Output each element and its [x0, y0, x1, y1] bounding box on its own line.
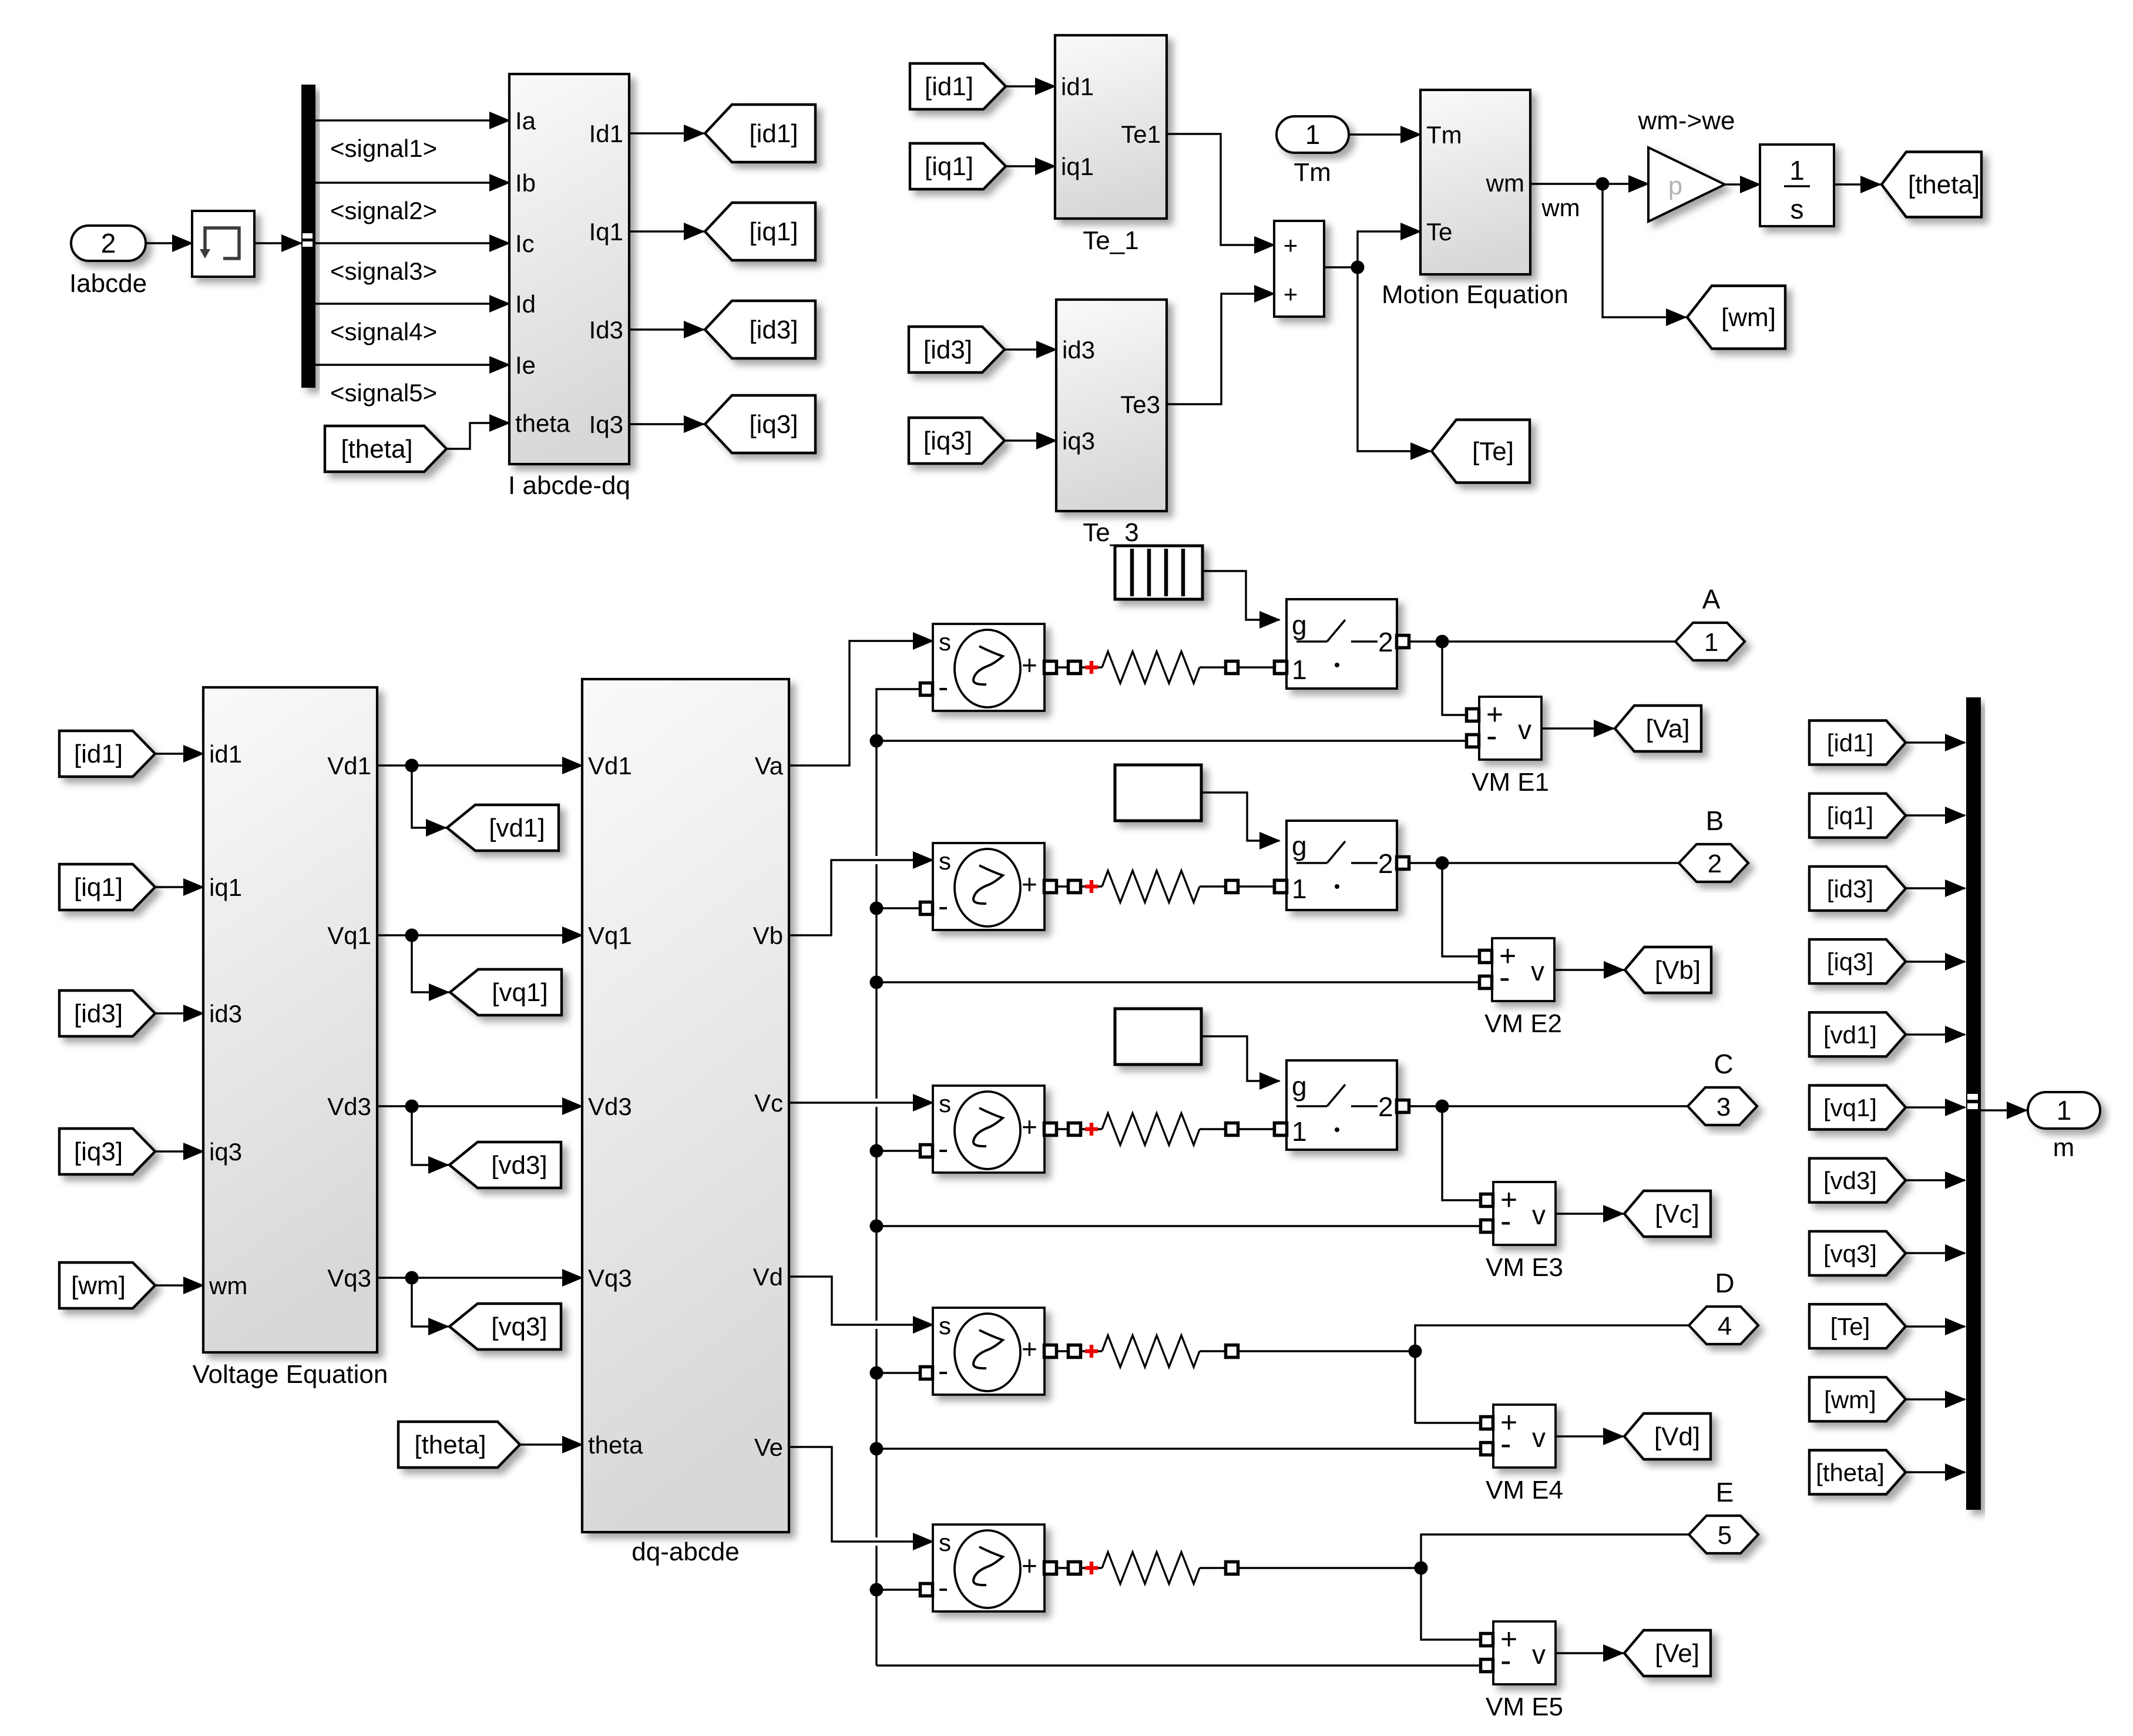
junction B — [1436, 857, 1449, 870]
svg-text:+: + — [1284, 231, 1298, 259]
svg-text:s: s — [939, 628, 951, 656]
port - of VM E5 — [1481, 1660, 1493, 1672]
from tag [iq3] to mux — [1809, 939, 1906, 983]
svg-text:[vq3]: [vq3] — [491, 1312, 547, 1341]
wire bus to VM - row 2087 — [876, 1225, 1480, 1227]
wire branch to [vq1] — [412, 935, 449, 992]
junction [vd3] — [405, 1100, 419, 1113]
svg-text:[theta]: [theta] — [1908, 170, 1980, 199]
svg-text:VM E5: VM E5 — [1486, 1693, 1563, 1721]
svg-text:-: - — [1499, 958, 1510, 995]
wire to port A — [1442, 640, 1675, 642]
svg-text:[iq1]: [iq1] — [1827, 802, 1873, 830]
svg-text:iq3: iq3 — [209, 1138, 242, 1166]
label E — [1716, 1477, 1734, 1507]
svg-text:Vq3: Vq3 — [327, 1264, 371, 1292]
wire B to VM E2 + — [1442, 863, 1479, 956]
voltage measurement VM E1 — [1479, 697, 1541, 760]
wire negative bus segment 4 — [875, 1329, 877, 1537]
junction bus — [870, 734, 884, 748]
svg-text:Va: Va — [755, 752, 784, 780]
svg-text:id3: id3 — [209, 1000, 242, 1028]
goto tag [iq1] — [705, 203, 815, 260]
svg-text:Voltage Equation: Voltage Equation — [193, 1360, 388, 1389]
svg-text:[vd1]: [vd1] — [1823, 1021, 1877, 1049]
junction [vq3] — [405, 1271, 419, 1285]
wire + of source to node 5 — [1057, 1567, 1069, 1569]
wire switch A out — [1410, 640, 1442, 642]
svg-text:[id1]: [id1] — [925, 72, 973, 101]
port node 3b — [1226, 1123, 1238, 1136]
svg-text:s: s — [1791, 194, 1804, 224]
subsystem Motion Equation — [1420, 90, 1530, 274]
svg-text:[iq1]: [iq1] — [925, 152, 973, 181]
port - of VM E3 — [1481, 1220, 1493, 1233]
wire id3 to Te_3 — [1005, 348, 1056, 350]
wire wm to Voltage Equation — [155, 1284, 203, 1286]
svg-text:g: g — [1292, 831, 1307, 861]
svg-text:wm->we: wm->we — [1637, 106, 1735, 135]
svg-text:E: E — [1716, 1477, 1734, 1507]
svg-text:2: 2 — [1378, 1092, 1393, 1122]
wire node to resistor 1 — [1080, 666, 1102, 668]
wire gain to integrator — [1725, 183, 1760, 185]
svg-text:[iq1]: [iq1] — [749, 217, 798, 246]
wire signal2 — [315, 182, 509, 183]
goto tag [theta] — [1882, 152, 1981, 217]
step block B — [1115, 765, 1201, 821]
from tag [vq3] to mux — [1809, 1231, 1906, 1275]
svg-text:1: 1 — [1305, 119, 1321, 150]
wire to port B — [1442, 862, 1679, 864]
port node 3a — [1069, 1123, 1081, 1136]
svg-text:1: 1 — [1292, 874, 1307, 904]
port 2 of B — [1397, 857, 1409, 869]
port node 4a — [1069, 1345, 1081, 1358]
goto tag [Ve] — [1624, 1630, 1711, 1676]
svg-text:id1: id1 — [209, 740, 242, 768]
wire E to VM E5 + — [1421, 1568, 1480, 1640]
svg-text:VM E2: VM E2 — [1484, 1009, 1562, 1038]
wire integrator to theta tag — [1834, 183, 1880, 185]
pulse generator — [1115, 546, 1202, 599]
goto tag [Va] — [1615, 706, 1701, 751]
goto tag [Vb] — [1625, 947, 1711, 993]
wire signal4 — [315, 303, 509, 304]
svg-text:-: - — [938, 670, 948, 704]
wire bus to source - row 1959 — [876, 1150, 921, 1151]
svg-text:Iq3: Iq3 — [589, 411, 623, 438]
port + of VM E3 — [1481, 1194, 1493, 1207]
polarity mark + — [1085, 1123, 1098, 1136]
goto tag [iq3] — [705, 395, 815, 453]
from tag [vd1] to mux — [1809, 1012, 1906, 1056]
junction bus — [870, 1220, 884, 1233]
wire A to VM E1 + — [1442, 642, 1466, 715]
svg-text:[iq1]: [iq1] — [74, 873, 123, 902]
from tag [id3] to mux — [1809, 867, 1906, 911]
from tag [theta] to dq-abcde — [398, 1422, 520, 1468]
svg-text:Ie: Ie — [515, 351, 536, 379]
svg-text:[vd1]: [vd1] — [489, 814, 545, 842]
svg-text:iq1: iq1 — [1061, 153, 1094, 180]
wire resistor 2 out — [1200, 885, 1226, 887]
svg-text:[wm]: [wm] — [1721, 303, 1776, 332]
label B — [1706, 805, 1724, 836]
junction [vq1] — [405, 929, 419, 942]
svg-text:m: m — [2053, 1133, 2075, 1162]
svg-text:[vq1]: [vq1] — [1823, 1094, 1877, 1121]
junction bus — [870, 902, 884, 915]
port - of E2 — [921, 902, 933, 915]
wire Tm to Motion Equation — [1349, 133, 1420, 135]
polarity mark + — [1085, 661, 1098, 674]
wire Id output [id1] — [629, 132, 704, 134]
wire VM E5 to [Ve] — [1556, 1652, 1623, 1654]
wire Te to goto tag — [1358, 267, 1430, 451]
polarity mark + — [1085, 1562, 1098, 1574]
svg-text:Vd1: Vd1 — [588, 752, 632, 780]
subsystem Te_3 — [1056, 300, 1167, 511]
svg-text:VM E1: VM E1 — [1472, 768, 1549, 797]
breaker switch C — [1286, 1060, 1397, 1150]
connection port 3 phase C — [1688, 1087, 1757, 1125]
svg-text:VM E4: VM E4 — [1486, 1476, 1563, 1505]
svg-text:[Te]: [Te] — [1830, 1313, 1870, 1341]
port - of VM E1 — [1467, 735, 1479, 747]
from tag [iq3] to Voltage Equation — [59, 1129, 155, 1174]
wire iq3 to Voltage Equation — [155, 1150, 203, 1152]
svg-text:5: 5 — [1718, 1521, 1732, 1550]
junction wm — [1596, 177, 1610, 191]
svg-text:[vd3]: [vd3] — [1823, 1167, 1877, 1194]
label VM E1 — [1472, 768, 1549, 797]
wire V output row 1303 — [377, 764, 582, 766]
svg-text:Id1: Id1 — [589, 120, 623, 147]
wire bus to VM - row 1672 — [876, 981, 1479, 983]
wire sum output — [1324, 266, 1358, 268]
wire bus to source - row 2706 — [876, 1589, 921, 1590]
svg-text:Vq3: Vq3 — [588, 1264, 632, 1292]
svg-text:<signal1>: <signal1> — [330, 135, 437, 162]
wire + of source to node 4 — [1057, 1350, 1069, 1352]
wire [theta] to mux — [1906, 1471, 1965, 1473]
wire to port D — [1415, 1325, 1689, 1351]
wire negative bus bottom — [875, 1546, 877, 1666]
wire [id3] to mux — [1906, 887, 1965, 889]
breaker switch A — [1286, 599, 1397, 689]
svg-text:[Vb]: [Vb] — [1655, 956, 1701, 985]
wire to port C — [1442, 1105, 1688, 1107]
from tag [id1] to Voltage Equation — [59, 731, 155, 777]
svg-text:1: 1 — [1292, 654, 1307, 685]
wire bus to source - row 1546 — [876, 907, 921, 909]
svg-text:[id1]: [id1] — [749, 119, 798, 148]
svg-text:Iq1: Iq1 — [589, 218, 623, 246]
wire iq3 to Te_3 — [1005, 439, 1056, 441]
selector block — [192, 211, 254, 277]
svg-text:[Ve]: [Ve] — [1655, 1639, 1699, 1668]
svg-text:g: g — [1292, 610, 1307, 640]
goto tag [vq3] — [449, 1304, 561, 1349]
mux bar — [1966, 697, 1981, 1510]
junction bus — [870, 1583, 884, 1597]
wire step B to switch B gate — [1201, 793, 1279, 841]
label D — [1715, 1268, 1734, 1298]
gain P wm->we — [1648, 147, 1725, 221]
svg-text:theta: theta — [588, 1431, 643, 1459]
sum block — [1274, 221, 1324, 317]
svg-text:A: A — [1702, 584, 1721, 615]
label signal1 — [330, 135, 437, 162]
from tag [wm] to mux — [1809, 1377, 1906, 1421]
port + of E5 — [1044, 1562, 1057, 1574]
from tag [iq3] to Te_3 — [909, 418, 1005, 464]
wire [iq1] to mux — [1906, 814, 1965, 816]
svg-text:v: v — [1531, 956, 1544, 986]
wire [vq3] to mux — [1906, 1252, 1965, 1254]
wire [Te] to mux — [1906, 1325, 1965, 1327]
junction C — [1436, 1100, 1449, 1113]
svg-text:[wm]: [wm] — [1824, 1386, 1876, 1413]
svg-text:s: s — [939, 1529, 951, 1556]
label Tm — [1294, 158, 1331, 187]
port + of E4 — [1044, 1345, 1057, 1358]
svg-text:Te: Te — [1426, 218, 1452, 246]
wire [wm] to mux — [1906, 1398, 1965, 1400]
label C — [1714, 1049, 1733, 1079]
svg-text:Id3: Id3 — [589, 316, 623, 344]
wire R5 to node E — [1238, 1567, 1421, 1569]
svg-text:id3: id3 — [1062, 336, 1095, 364]
junction bus — [870, 1366, 884, 1380]
svg-text:4: 4 — [1718, 1312, 1732, 1341]
port 1 node switch B — [1275, 881, 1287, 893]
svg-text:Vc: Vc — [754, 1089, 783, 1117]
svg-text:s: s — [939, 847, 951, 875]
wire D to VM E4 + — [1415, 1351, 1480, 1423]
svg-text:-: - — [938, 1571, 948, 1605]
svg-text:wm: wm — [209, 1272, 247, 1300]
svg-text:[Va]: [Va] — [1645, 714, 1689, 743]
port node 2b — [1226, 881, 1238, 893]
svg-text:+: + — [1022, 1334, 1037, 1364]
wire selector to demux — [254, 242, 301, 244]
wire mux to output m — [1981, 1109, 2027, 1111]
svg-text:Vq1: Vq1 — [588, 922, 632, 949]
svg-text:<signal3>: <signal3> — [330, 257, 437, 285]
goto tag [id1] — [705, 105, 815, 162]
port node 1b — [1226, 662, 1238, 674]
resistor R3 — [1102, 1113, 1200, 1145]
svg-text:Te3: Te3 — [1120, 391, 1160, 418]
svg-text:v: v — [1532, 1422, 1546, 1453]
wire Te3 to sum — [1167, 294, 1274, 404]
goto tag [Vc] — [1624, 1191, 1711, 1237]
from tag [vq1] to mux — [1809, 1086, 1906, 1130]
label VM E4 — [1486, 1476, 1563, 1505]
wire VM E3 to [Vc] — [1556, 1213, 1623, 1214]
wire wm to gain — [1603, 183, 1648, 184]
connection port 5 phase E — [1689, 1516, 1758, 1553]
wire C to VM E3 + — [1442, 1106, 1480, 1200]
wire resistor 4 out — [1200, 1350, 1226, 1352]
port + of VM E1 — [1467, 709, 1479, 721]
label Te_3 — [1083, 518, 1138, 547]
port + of E2 — [1044, 881, 1057, 893]
svg-text:[Vd]: [Vd] — [1654, 1422, 1700, 1451]
svg-text:s: s — [939, 1090, 951, 1117]
svg-text:+: + — [1022, 869, 1037, 899]
wire bus to VM - row 2466 — [876, 1448, 1480, 1449]
port node 1a — [1069, 662, 1081, 674]
svg-text:[id3]: [id3] — [749, 315, 798, 344]
svg-text:Tm: Tm — [1294, 158, 1331, 187]
wire node to resistor 2 — [1080, 885, 1102, 887]
wire Vb to source E2 — [789, 860, 933, 935]
wire wm to goto tag — [1603, 184, 1686, 317]
wire signal1 — [315, 119, 509, 121]
junction A — [1436, 635, 1449, 649]
port node 2a — [1069, 881, 1081, 893]
wire bus to VM - row 2835 — [876, 1664, 1480, 1666]
svg-text:[iq3]: [iq3] — [923, 427, 972, 455]
svg-text:3: 3 — [1717, 1093, 1731, 1121]
wire Ve to source E5 — [789, 1447, 933, 1542]
wire input2 to selector — [146, 242, 192, 244]
wire node to resistor 4 — [1080, 1350, 1102, 1352]
junction bus — [870, 1442, 884, 1456]
svg-text:Vd3: Vd3 — [588, 1093, 632, 1120]
wire V output row 1883 — [377, 1105, 582, 1107]
subsystem Te_1 — [1055, 35, 1167, 219]
svg-text:1: 1 — [1789, 155, 1805, 186]
svg-text:Te_1: Te_1 — [1083, 226, 1138, 255]
svg-text:Ib: Ib — [515, 169, 536, 197]
port + of VM E5 — [1481, 1634, 1493, 1646]
port - of E3 — [921, 1145, 933, 1157]
svg-text:2: 2 — [1708, 849, 1722, 878]
port 1 of B — [1275, 881, 1287, 893]
port - of E5 — [921, 1584, 933, 1596]
wire signal3 — [315, 242, 509, 244]
svg-text:Te1: Te1 — [1121, 120, 1161, 148]
svg-text:Iabcde: Iabcde — [69, 269, 147, 298]
connection port 1 phase A — [1675, 623, 1745, 660]
svg-text:[theta]: [theta] — [414, 1431, 486, 1459]
voltage measurement VM E4 — [1493, 1405, 1556, 1468]
subsystem I abcde-dq — [509, 74, 629, 464]
svg-text:[iq3]: [iq3] — [1827, 948, 1873, 976]
resistor R5 — [1102, 1552, 1200, 1584]
svg-text:wm: wm — [1486, 169, 1524, 197]
svg-text:[theta]: [theta] — [341, 435, 412, 464]
wire negative bus segment 3 — [875, 1107, 877, 1321]
wire Id output [iq3] — [629, 423, 704, 425]
svg-text:[vq3]: [vq3] — [1823, 1240, 1877, 1267]
svg-text:1: 1 — [1292, 1116, 1307, 1147]
port 2 of A — [1397, 636, 1409, 648]
subsystem Voltage Equation — [203, 687, 377, 1352]
wire V output row 2175 — [377, 1277, 582, 1278]
label VM E5 — [1486, 1693, 1563, 1721]
svg-text:B: B — [1706, 805, 1724, 836]
svg-text:<signal2>: <signal2> — [330, 197, 437, 224]
wire + of source to node 3 — [1057, 1128, 1069, 1130]
polarity mark + — [1085, 880, 1098, 893]
from tag [theta] to mux — [1809, 1450, 1906, 1495]
svg-text:[Te]: [Te] — [1472, 437, 1514, 466]
controlled voltage source E1 — [933, 624, 1044, 711]
port - of E4 — [921, 1367, 933, 1379]
svg-text:theta: theta — [515, 409, 570, 437]
goto tag [vd1] — [447, 805, 559, 851]
wire iq1 to Te_1 — [1006, 165, 1055, 167]
demux bus selector bar — [301, 85, 315, 388]
junction D — [1409, 1345, 1422, 1358]
port + of E3 — [1044, 1123, 1057, 1136]
from tag [id3] to Te_3 — [909, 327, 1005, 372]
port 1 node switch A — [1275, 662, 1287, 674]
wire + of source to node 2 — [1057, 885, 1069, 887]
svg-text:Vd1: Vd1 — [327, 752, 371, 780]
from tag [id1] to Te_1 — [910, 63, 1006, 109]
breaker switch B — [1286, 821, 1397, 910]
svg-text:-: - — [1500, 1425, 1511, 1462]
port node 4b — [1226, 1345, 1238, 1358]
wire VM E4 to [Vd] — [1556, 1435, 1623, 1437]
from tag [iq1] to Voltage Equation — [59, 864, 155, 910]
svg-text:VM E3: VM E3 — [1486, 1253, 1563, 1282]
svg-text:p: p — [1668, 172, 1682, 200]
svg-text:[id3]: [id3] — [923, 335, 972, 364]
wire [iq3] to mux — [1906, 961, 1965, 962]
port - of VM E2 — [1480, 976, 1492, 989]
wire bus to source - row 2337 — [876, 1372, 921, 1374]
junction sum output — [1351, 261, 1365, 274]
wire V output row 1592 — [377, 934, 582, 936]
svg-text:2: 2 — [1378, 627, 1393, 657]
wire VM E1 to [Va] — [1541, 727, 1614, 729]
wire pulse to switch A gate — [1202, 571, 1279, 620]
from tag [vd3] to mux — [1809, 1159, 1906, 1203]
goto tag [vd3] — [449, 1142, 561, 1188]
label signal3 — [330, 257, 437, 285]
svg-text:I abcde-dq: I abcde-dq — [508, 471, 630, 500]
svg-text:-: - — [938, 889, 948, 924]
label I abcde-dq — [508, 471, 630, 500]
svg-text:+: + — [1022, 650, 1037, 680]
port 1 of C — [1275, 1123, 1287, 1136]
wire R4 to node D — [1238, 1350, 1415, 1352]
port node 5b — [1226, 1562, 1238, 1574]
svg-text:[vd3]: [vd3] — [491, 1151, 547, 1180]
svg-text:[vq1]: [vq1] — [492, 978, 547, 1007]
wire switch C out — [1410, 1105, 1442, 1107]
svg-text:Motion Equation: Motion Equation — [1382, 280, 1568, 309]
wire bus to VM - row 1261 — [876, 740, 1466, 741]
wire id1 to Te_1 — [1006, 85, 1055, 87]
wire resistor 5 out — [1200, 1567, 1226, 1569]
wire negative bus segment 2 — [875, 864, 877, 1099]
port node 5a — [1069, 1562, 1081, 1574]
svg-text:Ia: Ia — [515, 107, 536, 135]
wire [vq1] to mux — [1906, 1106, 1965, 1108]
svg-text:+: + — [1022, 1550, 1037, 1581]
svg-text:Ic: Ic — [515, 230, 535, 257]
output port 1 m — [2028, 1092, 2100, 1129]
wire resistor 3 out — [1200, 1128, 1226, 1130]
